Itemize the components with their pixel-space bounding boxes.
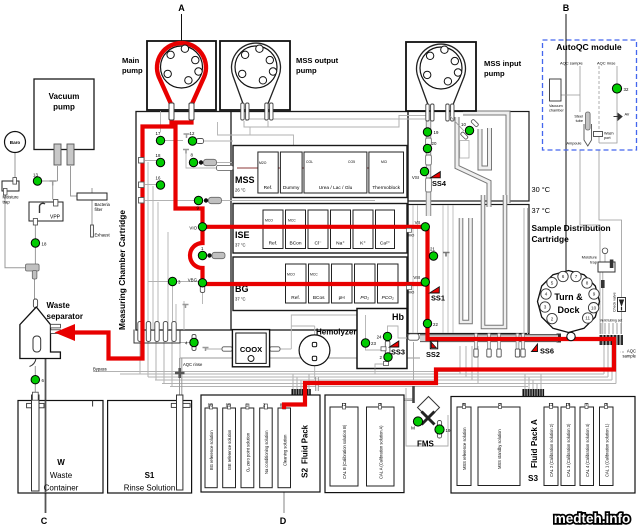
- svg-text:11: 11: [585, 316, 590, 321]
- svg-text:K⁺: K⁺: [360, 241, 366, 247]
- svg-text:Exhaust: Exhaust: [95, 233, 111, 238]
- logo medteh.info: [554, 511, 631, 526]
- node A leader: [181, 14, 183, 46]
- cross fitting above S1: [175, 368, 185, 378]
- svg-text:12: 12: [190, 131, 195, 136]
- valve 22: [423, 319, 438, 327]
- valve 1: [198, 246, 206, 260]
- svg-text:MCC: MCC: [288, 219, 296, 223]
- svg-text:10: 10: [461, 122, 466, 127]
- svg-text:18: 18: [42, 242, 47, 247]
- svg-text:16: 16: [566, 402, 571, 407]
- svg-text:Na⁺: Na⁺: [336, 241, 345, 247]
- waste container W: [18, 392, 103, 493]
- svg-text:12: 12: [342, 402, 347, 407]
- svg-text:17: 17: [156, 131, 161, 136]
- svg-text:S2: S2: [301, 468, 310, 478]
- AutoQC module: [543, 40, 637, 150]
- svg-text:COL: COL: [306, 160, 313, 164]
- svg-text:medteh.info: medteh.info: [554, 511, 631, 526]
- svg-text:M2O: M2O: [259, 161, 267, 165]
- valve 18b: [156, 153, 165, 167]
- svg-text:trap: trap: [3, 200, 11, 205]
- label AQC sample: [620, 351, 624, 353]
- wire: left cluster verticals down to connector comb: [145, 161, 194, 331]
- svg-text:SS2: SS2: [426, 350, 440, 359]
- valve 18: [31, 239, 47, 247]
- svg-text:S1: S1: [145, 471, 155, 480]
- svg-text:pump: pump: [484, 69, 505, 78]
- valve VSI: [412, 167, 429, 180]
- svg-text:B: B: [563, 3, 570, 13]
- svg-text:32: 32: [624, 87, 629, 92]
- measuring chamber cartridge outer box: [136, 112, 408, 331]
- valve 6 waste: [31, 376, 44, 384]
- manifold: dock connector comb: [599, 335, 623, 345]
- valve 20: [423, 141, 437, 153]
- svg-text:ISE: ISE: [235, 230, 250, 240]
- main pump tube fittings (over red): [169, 103, 194, 120]
- svg-text:MO: MO: [409, 234, 415, 238]
- valve 10: [450, 116, 479, 158]
- CAL B / CAL A pack: [325, 395, 404, 493]
- wire: S3 bottle gather lines from manifold: [464, 397, 606, 406]
- valve 23: [361, 339, 376, 347]
- fluid pack S2: [201, 395, 320, 492]
- 30C zone box: [408, 112, 529, 202]
- wire bundle: bottom horizontal tube runs: [120, 330, 616, 389]
- svg-text:Ref.: Ref.: [264, 185, 273, 191]
- wire: left column plumbing: [5, 153, 92, 300]
- svg-text:Dummy: Dummy: [283, 185, 300, 191]
- MO ports on distribution box: [407, 228, 415, 294]
- svg-text:10: 10: [591, 305, 597, 310]
- svg-text:pump: pump: [53, 103, 75, 112]
- valve 3: [168, 277, 181, 285]
- svg-text:Waste: Waste: [50, 471, 73, 480]
- svg-text:19: 19: [446, 428, 451, 433]
- svg-text:pump: pump: [296, 66, 317, 75]
- valve 19: [423, 128, 439, 136]
- tube: dock arm bar: [523, 335, 558, 342]
- BG chamber block: [233, 257, 407, 311]
- svg-text:5: 5: [551, 280, 554, 285]
- svg-text:PO₂: PO₂: [360, 295, 369, 301]
- svg-text:sample: sample: [623, 354, 637, 359]
- wire red: right riser and bottom runs: [284, 227, 614, 409]
- wire: COOX and hemolyzer links: [180, 315, 420, 379]
- svg-text:Cartridge: Cartridge: [532, 234, 570, 244]
- flag SS1: [430, 287, 445, 303]
- bacteria filter: [77, 193, 111, 212]
- MSS chamber block: [217, 146, 408, 198]
- svg-text:20: 20: [432, 141, 437, 146]
- svg-text:Ref.: Ref.: [269, 241, 278, 247]
- valve 12: [188, 131, 196, 145]
- svg-text:chamber: chamber: [549, 109, 565, 113]
- svg-text:AQC rinse: AQC rinse: [183, 362, 203, 367]
- FMS module: [406, 388, 448, 449]
- tube: distribution vertical lines: [413, 205, 453, 333]
- wire red: main pump left tube to waste line: [72, 106, 172, 359]
- svg-text:Baro: Baro: [10, 140, 21, 145]
- wire red: main pump right tube to VIO: [176, 106, 203, 227]
- pipe: red flow path: [72, 106, 614, 409]
- svg-text:Fluid Pack: Fluid Pack: [301, 424, 310, 464]
- valve 8: [189, 153, 197, 167]
- svg-text:COOX: COOX: [240, 345, 262, 354]
- svg-text:M: M: [411, 426, 415, 432]
- svg-text:Steel: Steel: [574, 115, 583, 119]
- svg-text:Cleaning solution: Cleaning solution: [282, 434, 287, 466]
- turn and dock wheel: [538, 271, 600, 333]
- svg-text:ISE reference solution: ISE reference solution: [227, 429, 232, 470]
- valve VIII: [413, 275, 429, 286]
- svg-text:9: 9: [593, 292, 596, 297]
- svg-text:BCon: BCon: [290, 241, 302, 247]
- svg-text:filter: filter: [95, 207, 104, 212]
- wire: pump interconnect tube: [244, 116, 429, 129]
- node D leader: [283, 409, 285, 513]
- svg-text:AutoQC module: AutoQC module: [556, 42, 622, 52]
- wire: FMS feed line: [413, 342, 415, 380]
- moisture trap right: [582, 248, 615, 288]
- valve 13: [33, 173, 42, 186]
- svg-text:Vacuum: Vacuum: [549, 104, 563, 108]
- svg-text:Check valve: Check valve: [613, 292, 617, 312]
- rinse solution S1: [108, 395, 192, 493]
- svg-text:Hemolyzer: Hemolyzer: [316, 328, 356, 337]
- small fittings around valve cluster: [50, 134, 450, 351]
- MSS output pump: [220, 41, 290, 120]
- svg-text:26 °C: 26 °C: [235, 188, 246, 193]
- svg-text:Measuring Chamber Cartridge: Measuring Chamber Cartridge: [117, 210, 127, 330]
- svg-text:VIO: VIO: [189, 225, 197, 230]
- svg-text:AQC sample: AQC sample: [560, 61, 583, 66]
- svg-text:23: 23: [371, 341, 376, 346]
- svg-text:VSI: VSI: [412, 175, 419, 180]
- svg-text:CAL 2 (Calibration solution 2): CAL 2 (Calibration solution 2): [549, 423, 554, 477]
- svg-text:pH: pH: [339, 295, 346, 301]
- flag SS4: [431, 172, 447, 188]
- svg-text:MO: MO: [409, 291, 415, 295]
- vacuum pump: [34, 79, 94, 165]
- svg-text:W: W: [57, 458, 65, 467]
- svg-text:pump: pump: [122, 66, 143, 75]
- svg-text:Container: Container: [44, 484, 79, 493]
- svg-text:Ca²⁺: Ca²⁺: [380, 241, 391, 247]
- svg-text:SS1: SS1: [431, 294, 445, 303]
- svg-text:15: 15: [226, 403, 231, 408]
- svg-text:CAL B (Calibration solution B): CAL B (Calibration solution B): [342, 424, 347, 479]
- svg-text:Ampoule: Ampoule: [567, 142, 582, 146]
- svg-text:VII: VII: [415, 220, 420, 225]
- hemolyzer: [299, 328, 356, 366]
- wire: Hb to SS2 port link: [407, 337, 420, 339]
- svg-text:CAL A (Calibration solution A): CAL A (Calibration solution A): [379, 425, 384, 479]
- svg-text:AQC rinse: AQC rinse: [597, 61, 616, 66]
- svg-text:VIII: VIII: [413, 275, 420, 280]
- svg-text:tube: tube: [576, 119, 583, 123]
- node C leader (waste drain): [45, 352, 47, 513]
- gray T fitting: [26, 264, 40, 279]
- wire: bypass line: [93, 371, 460, 373]
- svg-text:MCO: MCO: [287, 273, 295, 277]
- valve VIO: [189, 223, 206, 231]
- svg-text:D: D: [280, 516, 287, 526]
- wire: vent tubing set comb: [601, 323, 621, 334]
- svg-text:6: 6: [562, 274, 565, 279]
- wire red: ISE row: [203, 225, 428, 229]
- svg-text:Ref.: Ref.: [291, 295, 300, 301]
- valve VBG: [188, 278, 207, 287]
- svg-text:Turn &: Turn &: [554, 292, 583, 302]
- svg-text:CO5: CO5: [348, 160, 355, 164]
- svg-text:SS6: SS6: [540, 347, 554, 356]
- svg-text:MSS standby solution: MSS standby solution: [497, 429, 502, 469]
- MSS input pump: [406, 42, 476, 121]
- fluid pack A S3: [451, 397, 635, 494]
- wire: waste separator links: [35, 352, 45, 394]
- svg-text:16: 16: [208, 403, 213, 408]
- moisture trap left: [2, 178, 19, 205]
- pipe red: waste separator arrow: [55, 324, 76, 341]
- barometer: [5, 132, 26, 153]
- svg-text:O₂ zero point solution: O₂ zero point solution: [246, 432, 251, 472]
- tube: sample column (gray thick): [426, 112, 432, 216]
- valve M FMS: [411, 417, 423, 432]
- svg-text:8: 8: [586, 281, 589, 286]
- svg-text:CAL 1 (Calibration solution 1): CAL 1 (Calibration solution 1): [604, 423, 609, 477]
- svg-text:7: 7: [575, 274, 578, 279]
- svg-text:MCO: MCO: [265, 219, 273, 223]
- svg-text:Rinse Solution: Rinse Solution: [124, 484, 176, 493]
- svg-text:MSS input: MSS input: [484, 59, 522, 68]
- main pump: [147, 41, 216, 120]
- svg-text:21: 21: [430, 247, 435, 252]
- svg-text:S3: S3: [528, 474, 538, 483]
- svg-text:3: 3: [544, 305, 547, 310]
- svg-text:MCC: MCC: [310, 273, 318, 277]
- mini pump symbols (ball+capsule): [199, 159, 225, 258]
- svg-text:Air: Air: [625, 112, 631, 117]
- manifold bar S3: [522, 389, 544, 397]
- svg-text:Wash: Wash: [604, 132, 614, 136]
- svg-text:30 °C: 30 °C: [532, 185, 551, 194]
- exhaust port: [91, 225, 111, 238]
- wire: CAL B / CAL A bottle lines to FMS: [339, 399, 413, 404]
- svg-text:2: 2: [551, 316, 554, 321]
- svg-text:MSS reference solution: MSS reference solution: [462, 427, 467, 470]
- valve 32: [612, 84, 629, 93]
- svg-text:Hb: Hb: [392, 312, 404, 322]
- dock port circle: [567, 332, 575, 340]
- svg-text:Cl⁻: Cl⁻: [314, 241, 322, 247]
- svg-text:Vacuum: Vacuum: [49, 92, 80, 101]
- valve 9: [194, 196, 202, 210]
- svg-text:SS3: SS3: [391, 348, 405, 357]
- svg-text:Main: Main: [122, 56, 140, 65]
- svg-text:Na conditioning solution: Na conditioning solution: [264, 430, 269, 474]
- valve 2: [380, 353, 393, 361]
- svg-text:18: 18: [156, 153, 161, 158]
- VPP unit: [29, 200, 63, 226]
- ISE chamber block: [233, 204, 407, 254]
- wire red: loop between VIO and VBG: [190, 227, 203, 284]
- svg-text:MSS: MSS: [235, 175, 255, 185]
- svg-text:37 °C: 37 °C: [235, 297, 246, 302]
- svg-text:trap: trap: [590, 260, 598, 265]
- svg-text:port: port: [604, 136, 611, 140]
- wire: dock tube pair: [524, 208, 528, 334]
- tube: hemolyzer drain capsule: [315, 377, 318, 391]
- svg-text:19: 19: [434, 130, 439, 135]
- svg-text:24: 24: [377, 335, 382, 340]
- svg-text:Waste: Waste: [47, 301, 71, 310]
- wire: MSS feed lines: [161, 111, 426, 146]
- svg-text:37 °C: 37 °C: [235, 243, 246, 248]
- tubes hanging to dock tips: [474, 334, 525, 358]
- svg-text:separator: separator: [47, 312, 83, 321]
- check valve: [613, 292, 626, 312]
- tube: serpentine labyrinth 30C zone: [457, 113, 508, 207]
- svg-text:13: 13: [549, 402, 554, 407]
- flag SS2: [426, 341, 440, 359]
- svg-text:PCO₂: PCO₂: [382, 295, 394, 301]
- svg-text:VBG: VBG: [188, 278, 198, 283]
- waste separator: [20, 299, 83, 367]
- svg-text:BG reference solution: BG reference solution: [209, 430, 214, 470]
- Hb block: [357, 309, 419, 369]
- wire: S1 rinse riser and AQC rinse line: [180, 358, 421, 395]
- svg-text:SS4: SS4: [432, 179, 447, 188]
- svg-text:C: C: [41, 516, 48, 526]
- wire red: BG row: [203, 282, 428, 286]
- svg-text:Bypass: Bypass: [93, 367, 107, 372]
- svg-text:4: 4: [545, 292, 548, 297]
- svg-text:Thermoblock: Thermoblock: [372, 185, 400, 191]
- valve 16: [156, 176, 165, 190]
- svg-text:CAL 3 (Calibration solution 3): CAL 3 (Calibration solution 3): [566, 423, 571, 477]
- valve 17: [156, 131, 165, 145]
- valve VII: [415, 220, 430, 231]
- tube: main transport tube under cartridge: [420, 335, 558, 342]
- svg-text:FMS: FMS: [417, 440, 435, 449]
- svg-text:MSS output: MSS output: [296, 56, 339, 65]
- sample distribution cartridge box: [408, 205, 529, 334]
- flag SS3: [390, 341, 405, 357]
- svg-text:VPP: VPP: [50, 215, 61, 221]
- node B leader: [565, 14, 567, 271]
- valve 24: [377, 332, 392, 340]
- svg-text:37 °C: 37 °C: [532, 206, 551, 215]
- valve 4: [185, 335, 198, 351]
- svg-text:A: A: [178, 3, 185, 13]
- svg-text:CAL 4 (Calibration solution 4): CAL 4 (Calibration solution 4): [585, 423, 590, 477]
- svg-text:MCI: MCI: [381, 160, 387, 164]
- cartridge connector comb: [134, 322, 180, 344]
- tube: sample distribution loops: [461, 195, 505, 327]
- svg-text:13: 13: [33, 173, 38, 178]
- svg-text:Dock: Dock: [557, 305, 580, 315]
- svg-text:22: 22: [433, 322, 438, 327]
- svg-text:BCos: BCos: [313, 295, 325, 301]
- valve 21: [429, 247, 437, 261]
- COOX unit: [222, 330, 280, 367]
- manifold bar S2: [291, 389, 311, 397]
- valve 19 FMS: [435, 425, 451, 434]
- wire: AutoQC internals: [561, 66, 622, 334]
- svg-text:16: 16: [156, 176, 161, 181]
- flag SS6: [532, 344, 554, 356]
- wire: valve cluster interconnects: [148, 141, 375, 331]
- fittings on sample column: [426, 138, 432, 192]
- svg-text:Vent tubing set: Vent tubing set: [600, 319, 622, 323]
- svg-text:Sample Distribution: Sample Distribution: [532, 223, 611, 233]
- svg-text:Urea / Lac / Glu: Urea / Lac / Glu: [319, 185, 353, 191]
- svg-text:Fluid Pack A: Fluid Pack A: [530, 419, 539, 468]
- wire: S2 bottle gather lines to manifold: [211, 399, 291, 405]
